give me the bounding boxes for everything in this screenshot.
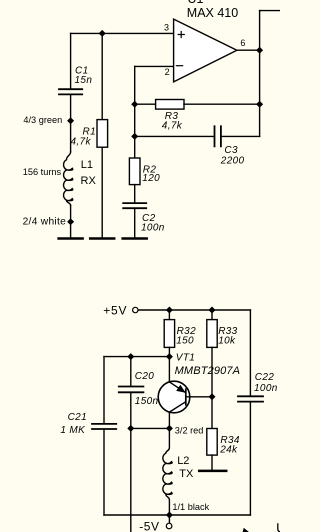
wire right column feedback xyxy=(259,11,261,137)
resistor R32 xyxy=(164,320,174,348)
node 4/3 green junction xyxy=(68,118,74,124)
node junction C20 top xyxy=(128,354,134,360)
svg-text:2/4 white: 2/4 white xyxy=(23,217,67,228)
inductor L1 xyxy=(64,152,73,206)
node junction R32 top xyxy=(167,307,173,313)
svg-text:L1: L1 xyxy=(81,159,93,171)
svg-text:4/3 green: 4/3 green xyxy=(23,115,62,125)
node junction C3 left xyxy=(132,134,138,140)
wire pin3 net horizontal xyxy=(71,32,174,34)
wire left rail lower xyxy=(103,430,105,515)
node junction output xyxy=(257,47,263,53)
wire collector link xyxy=(131,427,170,429)
ground (middle) xyxy=(90,237,114,240)
wire C2 to ground xyxy=(134,209,136,238)
svg-text:+5V: +5V xyxy=(103,304,127,318)
svg-text:100n: 100n xyxy=(254,383,278,394)
wire R32 bottom lead xyxy=(168,347,170,356)
transistor emitter arrow xyxy=(177,386,185,392)
resistor R34 xyxy=(207,429,217,456)
transistor emitter diagonal xyxy=(169,382,185,393)
transistor base bar xyxy=(185,389,187,405)
svg-text:24k: 24k xyxy=(219,445,238,456)
resistor R33 xyxy=(207,320,217,348)
capacitor C20 xyxy=(119,387,144,393)
node junction R3 left xyxy=(132,101,138,107)
svg-text:C3: C3 xyxy=(224,145,238,156)
wire C22 column upper xyxy=(249,310,251,395)
svg-text:1 MK: 1 MK xyxy=(60,425,86,436)
capacitor C2 xyxy=(123,203,146,208)
wire left rail (C21 column) upper xyxy=(103,357,105,423)
svg-text:L2: L2 xyxy=(177,455,189,467)
svg-text:RX: RX xyxy=(81,175,97,187)
op-amp plus sign xyxy=(178,32,184,38)
wire R3 left lead xyxy=(135,103,156,105)
wire C3 right lead xyxy=(222,135,260,137)
wire left rail top horizontal xyxy=(104,356,169,358)
node junction collector xyxy=(167,426,173,432)
wire C20 top lead xyxy=(130,357,132,386)
wire L1 to ground xyxy=(70,205,72,238)
wire R33 bottom lead to base xyxy=(211,347,213,396)
wire C22 column lower xyxy=(249,402,251,515)
svg-text:4,7k: 4,7k xyxy=(71,136,92,147)
wire top right to edge xyxy=(260,10,280,12)
wire middle column xyxy=(134,66,136,158)
wire +5V rail xyxy=(138,309,250,311)
svg-text:4,7k: 4,7k xyxy=(162,120,183,131)
wire op-amp output pin 6 xyxy=(237,49,260,51)
node 2/4 white junction xyxy=(68,219,74,225)
node junction R3 right xyxy=(257,101,263,107)
node junction base/R33/R34 xyxy=(209,394,215,400)
wire collector exit xyxy=(168,412,170,428)
capacitor C1 xyxy=(59,89,82,94)
wire cut-off arrow mark bottom xyxy=(243,529,248,532)
op-amp U1 triangle xyxy=(174,19,237,82)
terminal -5V circle xyxy=(166,523,172,529)
node junction emitter/R32 xyxy=(167,354,173,360)
svg-text:VT1: VT1 xyxy=(176,353,195,364)
wire C20 bottom lead down past rail xyxy=(130,393,132,532)
wire emitter lead xyxy=(168,357,170,382)
wire R1 bottom lead to ground xyxy=(101,147,103,238)
node junction -5V xyxy=(167,512,173,518)
svg-text:MMBT2907A: MMBT2907A xyxy=(175,365,241,377)
svg-text:10k: 10k xyxy=(218,336,236,347)
svg-text:C22: C22 xyxy=(255,372,274,383)
wire R32 top lead xyxy=(168,310,170,320)
svg-text:100n: 100n xyxy=(141,222,165,233)
node junction R33 top xyxy=(209,307,215,313)
svg-text:15n: 15n xyxy=(75,75,93,86)
ground (under R34) xyxy=(199,470,226,473)
capacitor C22 xyxy=(238,396,263,401)
ground (right of top section) xyxy=(123,237,147,240)
wire R34 bottom lead xyxy=(211,455,213,470)
svg-text:2: 2 xyxy=(165,67,170,77)
node junction C20 bottom xyxy=(128,426,134,432)
wire R1 top lead xyxy=(101,33,103,119)
inductor L2 xyxy=(163,428,172,515)
svg-text:C21: C21 xyxy=(68,412,87,423)
wire R33 top lead xyxy=(211,310,213,320)
wire C1 column upper xyxy=(70,33,72,88)
node junction top wire / R1 xyxy=(99,31,105,37)
svg-text:1/1 black: 1/1 black xyxy=(172,502,209,512)
transistor collector diagonal xyxy=(169,402,185,412)
svg-text:156 turns: 156 turns xyxy=(23,167,62,177)
svg-text:2200: 2200 xyxy=(220,156,245,167)
svg-text:3/2 red: 3/2 red xyxy=(175,426,204,436)
wire pin2 net horizontal xyxy=(135,65,174,67)
ground (left) xyxy=(59,237,83,240)
svg-text:150: 150 xyxy=(176,336,194,347)
op-amp minus sign xyxy=(176,65,182,67)
wire -5V bottom rail xyxy=(104,514,250,516)
wire cut-off glyph mark bottom right xyxy=(278,524,280,532)
wire -5V stub xyxy=(168,515,170,523)
svg-text:MAX 410: MAX 410 xyxy=(187,6,238,20)
svg-text:TX: TX xyxy=(179,468,194,480)
svg-text:120: 120 xyxy=(142,173,160,184)
resistor R1 xyxy=(97,120,108,148)
capacitor C3 xyxy=(215,126,221,146)
wire C1 to L1 xyxy=(70,95,72,151)
wire R3 right lead xyxy=(184,103,260,105)
svg-text:150n: 150n xyxy=(135,396,159,407)
wire R34 top lead xyxy=(211,397,213,429)
resistor R2 xyxy=(129,158,140,185)
resistor R3 xyxy=(156,100,184,110)
svg-text:6: 6 xyxy=(240,38,245,48)
terminal +5V circle xyxy=(133,307,138,312)
svg-text:3: 3 xyxy=(164,23,169,33)
wire C3 left lead xyxy=(135,135,214,137)
svg-text:-5V: -5V xyxy=(139,519,159,532)
svg-text:C20: C20 xyxy=(135,371,154,382)
wire base lead xyxy=(186,396,212,398)
transistor VT1 circle xyxy=(158,381,190,413)
capacitor C21 xyxy=(92,424,116,429)
wire R2 to C2 xyxy=(134,185,136,203)
